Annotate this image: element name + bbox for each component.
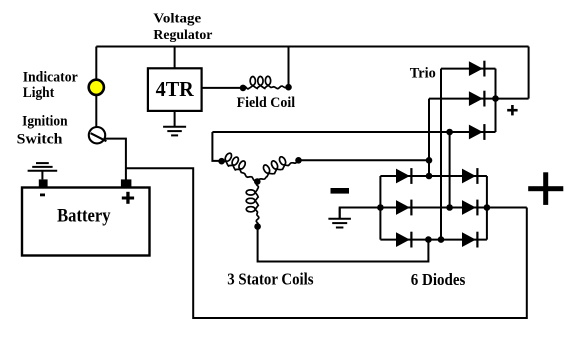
wire: bridge top row xyxy=(380,175,487,177)
wire: indicator light to top bus xyxy=(95,47,97,81)
voltage regulator 4TR box xyxy=(148,68,202,111)
battery box xyxy=(22,188,150,256)
label: alternator output + (large) xyxy=(528,172,563,205)
diode: trio D2 xyxy=(469,91,483,106)
ground: voltage regulator xyxy=(174,111,176,127)
diode: bridge bottom-right xyxy=(462,232,476,247)
wire: stator phase C to bridge bottom center xyxy=(258,227,429,262)
label: negative terminal bar xyxy=(331,188,350,194)
wire: field coil to top bus xyxy=(288,47,290,88)
wire: stator phase B to rectifier column xyxy=(299,159,430,161)
svg-text:Light: Light xyxy=(23,85,55,101)
diode: trio D1 xyxy=(469,61,483,76)
svg-text:Regulator: Regulator xyxy=(153,28,212,43)
label: trio output + xyxy=(507,105,517,115)
wire: bridge middle row with output xyxy=(340,207,527,209)
inductor: stator coil 3 (bottom) xyxy=(246,182,259,227)
wire: stator phase A top run to trio diode D3 xyxy=(212,131,470,133)
node: field coil right terminal xyxy=(285,84,292,91)
wire: 4TR output to field coil xyxy=(202,87,243,89)
node: bridge middle row right rail junction xyxy=(484,204,491,211)
svg-text:Switch: Switch xyxy=(17,131,63,147)
wire: trio D1 row xyxy=(441,68,496,70)
wire: trio output bus xyxy=(495,69,497,132)
node: trio output junction xyxy=(492,95,499,102)
diode: bridge top-left xyxy=(396,169,410,184)
indicator light (yellow lamp) xyxy=(89,80,104,95)
svg-text:Indicator: Indicator xyxy=(23,69,78,85)
wire: ignition switch to battery positive terminal xyxy=(105,139,126,180)
node: field coil left terminal xyxy=(240,85,247,92)
node: stator phase A junction on top run xyxy=(446,129,453,136)
diode: bridge middle-left xyxy=(396,200,410,215)
node: bridge middle row center tap xyxy=(446,204,453,211)
node: stator coil 3 outer end xyxy=(254,223,261,230)
inductor: stator coil 2 (right) xyxy=(257,157,298,182)
ignition switch xyxy=(89,127,107,143)
svg-text:Ignition: Ignition xyxy=(22,114,68,130)
wire: bridge bottom row xyxy=(380,239,487,241)
wire: stator phase A to bridge middle center xyxy=(449,132,451,208)
svg-text:3 Stator Coils: 3 Stator Coils xyxy=(227,269,314,288)
node: bridge top row center tap xyxy=(426,173,433,180)
wire: battery positive branch to bottom bus and alternator output xyxy=(126,168,527,318)
inductor: field coil xyxy=(243,76,289,89)
diode: bridge bottom-left xyxy=(396,232,410,247)
svg-text:6 Diodes: 6 Diodes xyxy=(411,270,466,289)
wire: stator frame left drop xyxy=(212,132,221,161)
node: stator phase B junction at rectifier column xyxy=(426,157,433,164)
diode: bridge middle-right xyxy=(462,200,476,215)
wire: top bus from indicator light to alternator output xyxy=(96,46,528,48)
wire: trio diode D2 input from stator phase B xyxy=(428,99,430,176)
diode: trio D3 xyxy=(469,125,483,140)
wire: trio output up to top bus xyxy=(528,47,530,99)
svg-text:Voltage: Voltage xyxy=(153,12,201,27)
battery positive sign xyxy=(122,192,134,204)
battery negative sign xyxy=(40,194,45,197)
diode: bridge top-right xyxy=(462,169,476,184)
wire: top bus to voltage regulator xyxy=(174,47,176,69)
svg-text:Battery: Battery xyxy=(57,206,111,226)
wire: trio diode D1 input from bridge bottom center xyxy=(440,69,442,240)
wire: trio D2 row to output corner xyxy=(429,98,529,100)
ground: rectifier negative xyxy=(340,208,381,219)
node: bridge bottom row center taps xyxy=(425,236,432,243)
wire: trio D3 row output xyxy=(470,131,496,133)
node: stator coil 2 outer end xyxy=(295,157,302,164)
node: stator neutral junction xyxy=(254,178,261,185)
inductor: stator coil 1 (left) xyxy=(222,153,258,181)
svg-text:4TR: 4TR xyxy=(156,77,195,101)
battery negative terminal xyxy=(39,179,48,188)
wire: bridge right rail xyxy=(486,176,488,240)
node: stator coil 1 outer end xyxy=(218,158,225,165)
node: bridge middle row left rail junction xyxy=(377,204,384,211)
ground: battery negative to chassis xyxy=(41,171,43,180)
wire: bridge left rail xyxy=(379,176,381,240)
battery positive terminal xyxy=(121,179,131,188)
wire: indicator light to ignition switch xyxy=(95,95,97,128)
svg-text:Field Coil: Field Coil xyxy=(237,95,296,111)
svg-text:Trio: Trio xyxy=(410,65,436,81)
